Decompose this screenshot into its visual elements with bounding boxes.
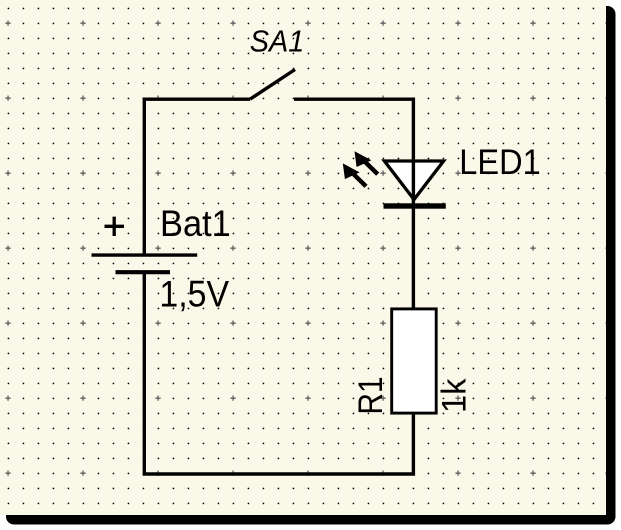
svg-text:1,5V: 1,5V bbox=[159, 273, 229, 315]
svg-text:1k: 1k bbox=[436, 378, 474, 413]
svg-text:Bat1: Bat1 bbox=[160, 203, 231, 244]
svg-text:SA1: SA1 bbox=[250, 25, 304, 59]
svg-text:LED1: LED1 bbox=[459, 143, 540, 182]
svg-text:R1: R1 bbox=[351, 376, 389, 414]
